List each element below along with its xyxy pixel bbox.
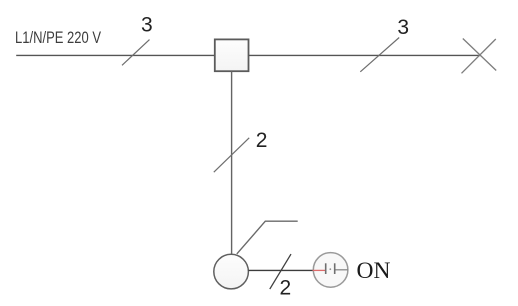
switch S body (circle) (214, 254, 249, 289)
svg-text:3: 3 (397, 16, 409, 39)
wire supply line right segment (249, 54, 481, 56)
indicator lamp right lead (336, 269, 349, 271)
indicator lamp body (circle) (313, 253, 348, 288)
indicator contact left tick (325, 263, 327, 274)
wire supply line left segment (16, 54, 215, 56)
conductor count slash (right, 3 wires) (360, 38, 399, 72)
svg-text:2: 2 (279, 277, 291, 300)
conductor count slash (left, 3 wires) (122, 40, 150, 66)
svg-text:2: 2 (256, 129, 268, 152)
indicator contact right tick (334, 263, 336, 274)
svg-text:3: 3 (141, 13, 153, 36)
indicator lamp red lead (313, 269, 326, 271)
junction box (215, 39, 249, 71)
svg-text:L1/N/PE 220 V: L1/N/PE 220 V (15, 28, 101, 47)
lamp outlet termination (X cross) (462, 39, 497, 74)
indicator contact gap dot (329, 268, 331, 270)
conductor count slash (vertical, 2 wires) (214, 138, 249, 172)
wire switch to indicator lamp (248, 269, 313, 271)
wire drop from junction box to switch (231, 71, 233, 255)
switch S actuator lever (237, 221, 298, 254)
conductor count slash (bottom, 2 wires) (270, 254, 291, 289)
svg-text:ON: ON (357, 258, 391, 284)
